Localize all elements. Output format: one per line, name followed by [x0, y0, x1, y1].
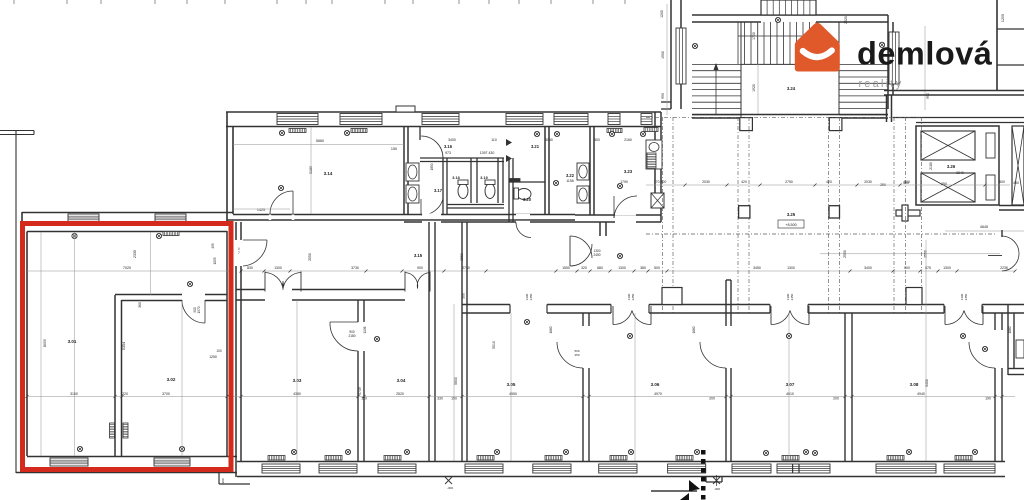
hall dashed line horizontal a — [646, 116, 920, 118]
bottom window 10 — [876, 464, 936, 473]
opening 3.05 top — [510, 304, 547, 315]
svg-text:8000: 8000 — [43, 339, 47, 347]
dim line room 3.14 vert — [310, 127, 312, 214]
svg-text:3.01: 3.01 — [68, 339, 77, 344]
elevator outer box — [916, 126, 999, 205]
corridor pillar bump b — [906, 288, 922, 305]
hall dashed column lines vertical — [663, 117, 922, 313]
radiator room w8 — [782, 456, 799, 461]
socket extra 3.07 — [763, 450, 768, 455]
svg-text:1136: 1136 — [363, 326, 367, 333]
svg-text:4940: 4940 — [917, 392, 925, 396]
rooms dimension numbers — [70, 392, 991, 401]
level mark a — [445, 477, 452, 484]
bottom window 11 — [944, 464, 995, 473]
radiator room w1 — [268, 456, 285, 461]
wall 3.07|3.08 — [844, 313, 846, 461]
svg-text:3.20: 3.20 — [523, 197, 532, 202]
unit bottom wall inner — [27, 456, 237, 458]
svg-text:3450: 3450 — [753, 266, 761, 270]
svg-text:3.25: 3.25 — [787, 212, 796, 217]
hall column right — [829, 206, 840, 218]
svg-text:1920: 1920 — [752, 84, 756, 92]
socket 3.08 door — [960, 333, 965, 338]
svg-text:2750: 2750 — [785, 180, 793, 184]
svg-text:4645: 4645 — [980, 225, 988, 229]
north arrow flag — [689, 480, 700, 497]
door 3.08 arcs — [944, 306, 946, 325]
door arc 3.17 — [421, 199, 443, 215]
window top wall 1 — [277, 114, 318, 125]
room 3.14 right wall — [403, 127, 405, 214]
door arc 3.16 — [421, 136, 443, 158]
svg-text:2030: 2030 — [702, 180, 710, 184]
socket room w4 — [494, 449, 499, 454]
survey tick marks top edge — [14, 0, 625, 4]
svg-text:2450: 2450 — [593, 253, 600, 257]
svg-text:1425: 1425 — [257, 208, 265, 212]
rooms dim ticks — [26, 395, 29, 398]
stair column left — [740, 118, 753, 131]
radiator 3.23 top — [644, 128, 658, 132]
thin line 3.01 va — [74, 232, 76, 456]
svg-text:3.21: 3.21 — [531, 144, 540, 149]
radiator 3.02 wall b — [123, 423, 128, 438]
svg-text:2335: 2335 — [133, 250, 137, 258]
socket 3.07 door — [786, 333, 791, 338]
svg-text:990: 990 — [926, 93, 930, 99]
svg-text:+8,500: +8,500 — [785, 223, 796, 227]
svg-text:1300: 1300 — [618, 266, 626, 270]
svg-text:1550: 1550 — [562, 266, 570, 270]
svg-text:3.19: 3.19 — [480, 176, 487, 180]
window top wall 7 — [641, 114, 652, 125]
thin v 3.03 — [296, 300, 298, 461]
socket circle sanitary b — [554, 131, 559, 136]
sanitary block bottom wall inner — [575, 214, 661, 216]
door triangle a — [506, 139, 512, 146]
bottom window 8 — [732, 464, 771, 473]
svg-text:3.18: 3.18 — [452, 176, 459, 180]
svg-text:500: 500 — [904, 266, 910, 270]
junction cross right — [896, 210, 920, 216]
neighbour wall top-right h2 — [997, 64, 1024, 66]
corridor pillar bump a — [662, 288, 682, 305]
socket room w3 — [404, 449, 409, 454]
svg-text:3.07: 3.07 — [786, 382, 795, 387]
north arrow line — [651, 490, 697, 492]
upper wing bottom wall inner — [233, 214, 575, 216]
stair top protrusion treads — [767, 0, 810, 15]
radiator 3.01 wall a — [110, 423, 115, 438]
dim line 7020 — [27, 270, 233, 272]
bottom wall inner 3.03-3.08 — [237, 461, 445, 463]
toilet 3.19 — [485, 184, 495, 199]
svg-text:200: 200 — [709, 397, 715, 401]
svg-text:1250: 1250 — [209, 355, 217, 359]
svg-text:2235: 2235 — [1000, 266, 1008, 270]
stair column right — [829, 118, 842, 131]
unit bottom window 1 — [50, 458, 88, 466]
door opening 3.03 — [265, 289, 292, 302]
door sanitary-corridor opening — [516, 214, 530, 216]
svg-text:1970: 1970 — [197, 306, 201, 313]
svg-text:2450: 2450 — [790, 293, 794, 300]
socket 3.01 mid — [187, 281, 192, 286]
dim line 2550 horizontal — [820, 253, 1000, 255]
step mark red unit — [218, 473, 220, 484]
svg-text:330: 330 — [437, 397, 443, 401]
door opening 3.06 — [611, 304, 649, 315]
stair left wall window — [676, 28, 686, 84]
bottom window 2 — [319, 464, 357, 473]
elevator slot lower — [986, 175, 995, 200]
level mark b — [713, 477, 720, 484]
hall dim line — [646, 184, 1010, 186]
kitchenette 3.23 — [646, 140, 662, 169]
door arc 3.23 vestibule — [614, 196, 637, 218]
svg-text:1205: 1205 — [1001, 14, 1005, 22]
radiator room w2 — [325, 456, 342, 461]
wall 3.22/3.23 vertical — [589, 127, 591, 215]
section dotted line — [701, 450, 706, 500]
bottom window 9 — [777, 464, 830, 473]
sink 3.17 lower — [406, 185, 419, 203]
right edge wall vertical — [1007, 305, 1009, 376]
wall 3.04 right — [428, 222, 430, 461]
svg-text:200: 200 — [833, 397, 839, 401]
svg-text:190: 190 — [985, 397, 991, 401]
socket circle 3.14 c — [278, 185, 283, 190]
socket room w9 — [906, 449, 911, 454]
stair left dim line — [666, 4, 668, 115]
radiator room w4 — [477, 456, 494, 461]
stair right dim line — [924, 26, 926, 110]
svg-text:1055: 1055 — [213, 257, 217, 264]
socket 3.01 top a — [72, 233, 77, 238]
bottom window 1 — [262, 464, 300, 473]
svg-text:2180: 2180 — [348, 334, 355, 338]
svg-text:830: 830 — [247, 266, 253, 270]
svg-text:500: 500 — [904, 180, 910, 184]
svg-text:990: 990 — [661, 93, 665, 99]
radiator sanitary top — [607, 129, 622, 133]
door opening 3.07 — [770, 304, 808, 315]
socket circle corridor — [617, 253, 622, 258]
wall 3.06|3.07 — [725, 280, 727, 326]
svg-text:420: 420 — [741, 180, 747, 184]
door 3.05|3.06 arc — [557, 342, 583, 368]
svg-text:3.16: 3.16 — [444, 144, 453, 149]
wall 3.02 top horiz — [115, 294, 182, 296]
socket 3.04 door — [374, 336, 379, 341]
thin line 3.02 v — [181, 301, 183, 456]
wall 3.02 top right stub — [205, 294, 227, 296]
window top wall 2 — [340, 114, 382, 125]
svg-text:5354: 5354 — [122, 342, 126, 350]
window top wall 4 — [506, 114, 543, 125]
elevator bottom wall — [999, 205, 1024, 207]
svg-text:4950: 4950 — [509, 392, 517, 396]
window top wall 6 — [608, 114, 620, 125]
svg-text:reality: reality — [859, 78, 904, 90]
dim line 8000 — [40, 232, 42, 456]
toilet 3.18 — [458, 184, 468, 199]
wall 3.01|3.02 vertical — [114, 295, 116, 456]
svg-text:420: 420 — [826, 180, 832, 184]
red highlight rectangle unit 3.01+3.02 — [23, 224, 232, 470]
shaft with X — [651, 193, 664, 208]
level box +8,500 — [778, 220, 804, 228]
wall 3.16/3.17 vertical — [419, 127, 421, 140]
elevator right shaft — [1012, 126, 1024, 205]
right wing west wall — [886, 95, 888, 122]
pillar bump on top wall — [396, 106, 415, 112]
stair top protrusion — [761, 0, 816, 15]
door 3.07 arcs — [770, 306, 772, 325]
wall 3.20 top — [509, 181, 545, 183]
svg-text:1660: 1660 — [692, 326, 696, 333]
right wing top wall — [884, 90, 1024, 92]
svg-text:220: 220 — [122, 392, 128, 396]
svg-text:3.24: 3.24 — [787, 86, 796, 91]
right edge fixture — [1016, 340, 1024, 358]
radiator 3.23 vertical — [647, 153, 656, 168]
svg-text:3100: 3100 — [70, 392, 78, 396]
socket room w7 — [694, 449, 699, 454]
svg-text:150: 150 — [391, 147, 397, 151]
bottom window 6 — [599, 464, 637, 473]
door 3.02 arc — [182, 300, 205, 323]
corridor right door arc — [1002, 236, 1019, 254]
socket circle sanitary d — [640, 131, 645, 136]
svg-text:450: 450 — [1013, 181, 1019, 185]
stall front wall — [447, 204, 504, 206]
sink 3.22 upper — [577, 163, 589, 180]
socket room w1 — [291, 449, 296, 454]
svg-text:3.26: 3.26 — [947, 164, 956, 169]
svg-text:500: 500 — [462, 293, 466, 299]
radiator 3.14 b — [351, 129, 367, 133]
corridor double door arcs — [570, 236, 592, 258]
socket circle sanitary a — [534, 131, 539, 136]
upper wing bottom wall outer — [227, 219, 575, 221]
door 3.06|3.07 arc — [700, 342, 726, 368]
svg-text:2030: 2030 — [864, 180, 872, 184]
svg-text:2520: 2520 — [396, 392, 404, 396]
svg-text:3.23: 3.23 — [624, 169, 633, 174]
svg-text:100: 100 — [216, 349, 222, 353]
svg-text:1700: 1700 — [752, 32, 756, 40]
svg-text:680: 680 — [597, 266, 603, 270]
stair right wall window — [889, 32, 899, 84]
dim line 4645 — [945, 230, 1024, 232]
svg-text:2160: 2160 — [624, 138, 632, 142]
wall 3.03|3.04 — [357, 300, 359, 322]
bottom window 5 — [533, 464, 571, 473]
rooms top wall 3.03-3.04 — [236, 289, 429, 291]
door triangle b — [506, 155, 512, 162]
svg-text:5660: 5660 — [316, 139, 324, 143]
svg-text:2550: 2550 — [924, 250, 928, 258]
stair top flight treads — [738, 22, 816, 64]
socket extra 3.07b — [812, 450, 817, 455]
socket room w10 — [972, 449, 977, 454]
unit top window 1 — [68, 214, 99, 222]
svg-text:3.06: 3.06 — [651, 382, 660, 387]
socket circle 3.14 a — [279, 130, 284, 135]
thin v 3.07 — [788, 313, 790, 461]
door opening 3.08 — [944, 304, 982, 315]
door 3.08 right arc — [969, 342, 995, 368]
socket circle stair right wall — [879, 42, 884, 47]
svg-text:1300: 1300 — [274, 266, 282, 270]
corridor dim ticks — [240, 270, 243, 273]
wall 3.05|3.06 — [582, 313, 584, 326]
thin v 3.08 — [925, 240, 927, 461]
hall column left — [739, 206, 750, 218]
wall 3.20/3.21 vertical — [508, 158, 510, 222]
bottom window 7 — [668, 464, 706, 473]
room 3.02 right wall — [226, 231, 228, 456]
svg-text:2450: 2450 — [631, 293, 635, 300]
svg-text:250: 250 — [941, 182, 947, 186]
sanitary block right wall — [654, 112, 656, 193]
svg-text:1900: 1900 — [661, 51, 665, 59]
upper wing left exterior wall — [226, 112, 228, 221]
sanitary block bottom wall outer — [404, 221, 661, 223]
bottom wall step right — [705, 477, 707, 483]
door 3.01 corridor arc — [243, 239, 267, 241]
svg-text:3.15: 3.15 — [414, 253, 423, 258]
urinal 3.20 black — [509, 179, 520, 183]
toilet 3.20 — [517, 189, 531, 200]
right edge wall horizontal — [1008, 368, 1024, 370]
svg-text:2840: 2840 — [956, 171, 964, 175]
svg-text:500: 500 — [999, 180, 1005, 184]
stair block top wall — [692, 14, 888, 16]
svg-text:1397 430: 1397 430 — [480, 151, 495, 155]
svg-text:3.17: 3.17 — [434, 188, 443, 193]
svg-text:2180: 2180 — [929, 162, 933, 170]
svg-text:3730: 3730 — [351, 266, 359, 270]
socket 3.05 top — [524, 319, 529, 324]
window top wall 5 — [554, 114, 588, 125]
neighbour wall top-right h1 — [997, 28, 1024, 30]
stair dim line vertical — [757, 22, 759, 114]
stair left flight treads — [692, 64, 741, 114]
svg-text:4010: 4010 — [786, 392, 794, 396]
svg-text:1850: 1850 — [430, 163, 434, 170]
socket room w2 — [345, 449, 350, 454]
upper wing top wall outer line — [226, 111, 661, 113]
socket circle 3.22 — [553, 180, 558, 185]
svg-text:-300: -300 — [714, 487, 720, 491]
stall wall b — [470, 158, 472, 203]
upper wing top wall inner line — [226, 126, 404, 128]
svg-text:7020: 7020 — [123, 266, 131, 270]
svg-text:300: 300 — [221, 478, 225, 483]
socket circle 3.14 b — [344, 130, 349, 135]
svg-text:3040: 3040 — [545, 138, 553, 142]
thin line 3.01 vb — [150, 232, 152, 295]
door 3.06 arcs — [612, 306, 614, 325]
door opening 3.04 — [405, 289, 430, 302]
svg-text:5450: 5450 — [925, 379, 929, 387]
elevator car upper — [921, 131, 975, 160]
svg-text:3.14: 3.14 — [324, 171, 333, 176]
unit top wall outer — [22, 212, 233, 214]
svg-text:170 500: 170 500 — [654, 180, 667, 184]
bottom window mullion — [792, 464, 794, 473]
svg-text:1300: 1300 — [787, 266, 795, 270]
neighbour wall top-right vertical — [996, 0, 998, 90]
stair direction arrow left — [715, 68, 717, 114]
svg-text:120: 120 — [361, 397, 367, 401]
stair right flight treads — [839, 64, 888, 114]
neighbour boundary line left — [15, 131, 17, 473]
stair block right wall — [887, 15, 889, 109]
rooms top wall 3.05-3.08 — [462, 304, 1002, 306]
bottom window 3 — [378, 464, 416, 473]
socket 3.06 door — [627, 333, 632, 338]
svg-text:1156: 1156 — [566, 179, 574, 183]
svg-text:973: 973 — [445, 151, 451, 155]
room 3.14 door arc — [270, 191, 293, 214]
neighbour wall stub top-left — [0, 130, 34, 132]
stair block left wall — [670, 0, 672, 109]
svg-text:2550: 2550 — [843, 250, 847, 258]
svg-text:2450: 2450 — [964, 293, 968, 300]
svg-text:2730: 2730 — [462, 266, 470, 270]
socket circle sanitary c — [609, 131, 614, 136]
sanitary block top wall inner line — [404, 126, 661, 128]
sink 3.17 upper — [406, 163, 419, 181]
logo house icon — [795, 23, 840, 72]
thin v 3.05b — [510, 313, 512, 461]
socket room w6 — [628, 449, 633, 454]
wall 3.21/3.22 vertical — [544, 127, 546, 215]
radiator room w5 — [545, 456, 562, 461]
stall wall c — [497, 158, 499, 203]
dim line 1425 — [233, 208, 290, 210]
svg-text:360: 360 — [138, 302, 142, 308]
svg-text:300: 300 — [594, 138, 600, 142]
stair block join to wing — [661, 101, 671, 103]
socket room w5 — [563, 449, 568, 454]
svg-text:500: 500 — [654, 266, 660, 270]
svg-text:450: 450 — [574, 353, 579, 357]
thin v 3.05 — [453, 304, 455, 461]
socket 3.08 side door — [982, 346, 987, 351]
door sanitary-corridor arc — [516, 223, 531, 238]
door opening 3.17 white — [422, 213, 441, 215]
rooms top wall 3.09 continuation — [1002, 304, 1024, 306]
svg-text:demlová: demlová — [857, 36, 993, 72]
vestibule wall below 3.23 — [599, 222, 601, 236]
svg-text:380: 380 — [640, 266, 646, 270]
svg-text:2550: 2550 — [308, 253, 312, 261]
wall 3.05 left — [461, 222, 463, 461]
svg-text:2620: 2620 — [844, 16, 848, 24]
sink 3.22 lower — [577, 186, 589, 203]
svg-text:3700: 3700 — [162, 392, 170, 396]
svg-text:2450: 2450 — [529, 293, 533, 300]
right wing inner wall — [893, 117, 1024, 119]
socket 3.02 bottom — [179, 446, 184, 451]
svg-text:1660: 1660 — [549, 326, 553, 333]
svg-text:900: 900 — [417, 266, 423, 270]
